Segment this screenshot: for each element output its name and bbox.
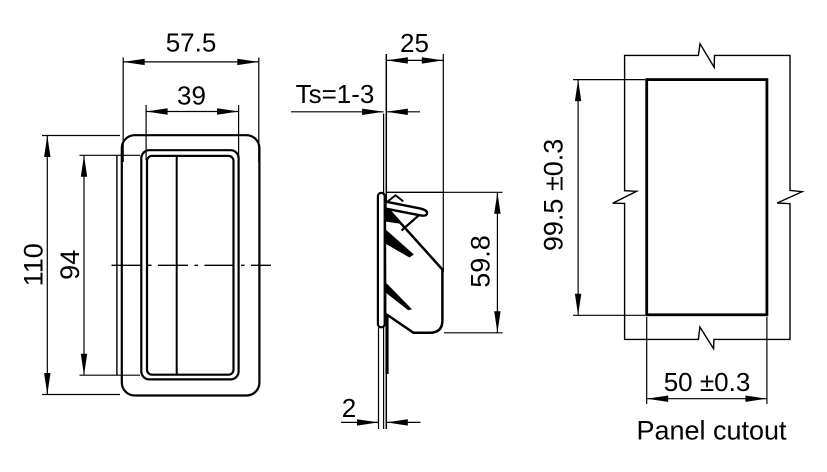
svg-text:39: 39 (177, 81, 206, 111)
svg-text:99.5 ±0.3: 99.5 ±0.3 (539, 139, 569, 251)
svg-text:Panel cutout: Panel cutout (636, 416, 787, 446)
svg-text:94: 94 (55, 250, 85, 280)
svg-text:25: 25 (400, 28, 429, 58)
svg-text:59.8: 59.8 (466, 235, 496, 288)
svg-text:50 ±0.3: 50 ±0.3 (664, 367, 751, 397)
svg-text:110: 110 (19, 243, 49, 286)
svg-text:57.5: 57.5 (166, 28, 217, 58)
svg-text:Ts=1-3: Ts=1-3 (296, 79, 375, 109)
svg-text:2: 2 (342, 393, 356, 423)
